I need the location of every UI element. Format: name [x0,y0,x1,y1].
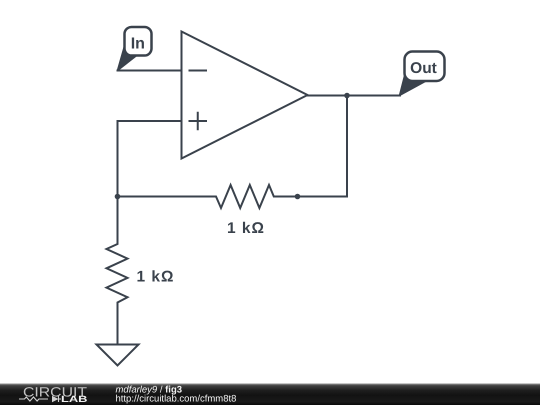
svg-text:1 kΩ: 1 kΩ [227,220,265,237]
svg-text:Out: Out [410,60,437,77]
svg-text:LAB: LAB [61,394,88,404]
svg-text:1 kΩ: 1 kΩ [137,269,175,286]
svg-text:http://circuitlab.com/cfmm8t8: http://circuitlab.com/cfmm8t8 [116,393,237,404]
svg-text:In: In [131,35,145,52]
